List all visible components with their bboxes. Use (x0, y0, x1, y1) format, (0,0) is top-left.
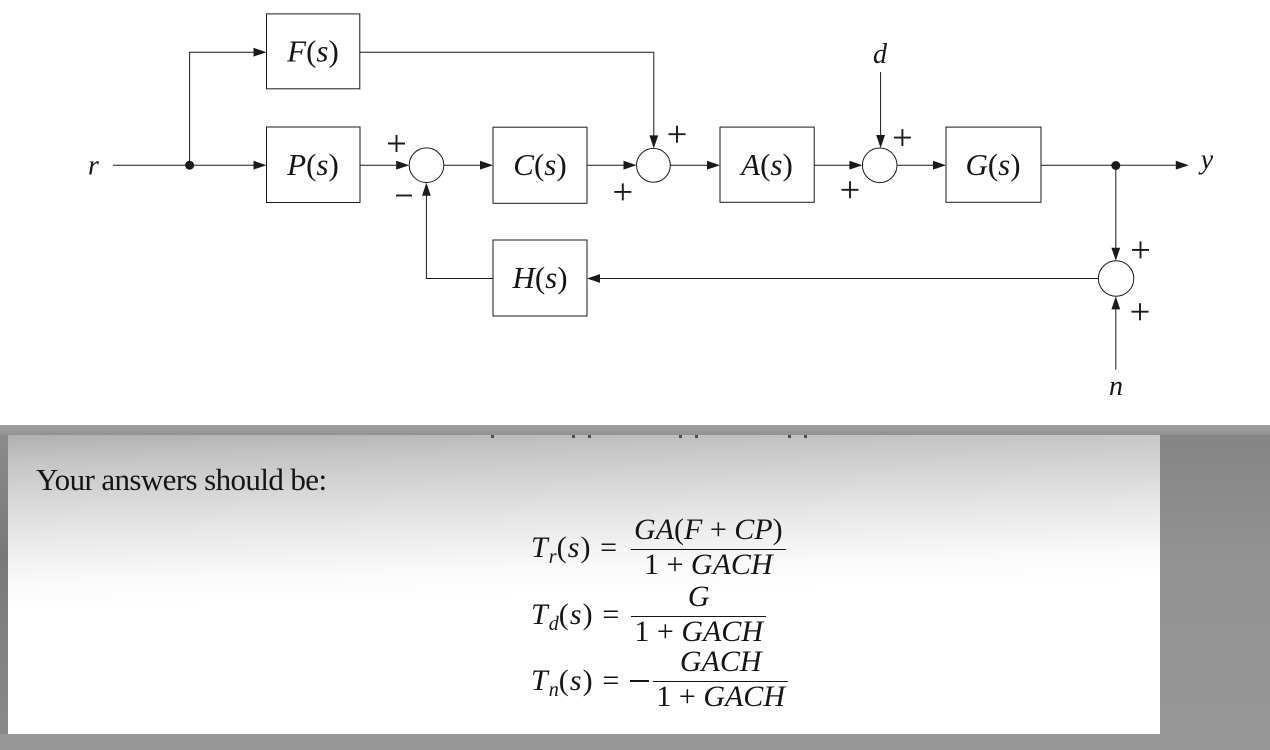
svg-text:F(s): F(s) (286, 34, 339, 69)
wire sum2 to A(s) (670, 164, 708, 166)
summing junction S2 (637, 148, 671, 182)
plus sign sum4 bottom-right (1132, 303, 1149, 320)
block diagram (0, 0, 1270, 424)
block A(s) (720, 127, 814, 202)
right gray block (1160, 435, 1270, 750)
arrowhead into sum1 left (396, 161, 409, 170)
arrowhead into sum2 top (649, 135, 658, 148)
answer panel left border (0, 435, 8, 734)
plus sign sum3 top-right (894, 129, 911, 146)
arrowhead into sum3 left (849, 161, 862, 170)
arrowhead into sum2 left (624, 161, 637, 170)
block G(s) (946, 127, 1041, 202)
arrowhead into F(s) (254, 48, 267, 57)
wire d input (880, 72, 882, 136)
plus sign sum2 bottom-left (614, 183, 631, 200)
equation T_n minus sign (630, 680, 649, 682)
svg-text:y: y (1198, 144, 1214, 175)
wire sum1 to C(s) (444, 164, 481, 166)
summing junction S1 (409, 148, 444, 183)
arrowhead into sum4 bottom (n) (1111, 296, 1120, 309)
plus sign sum3 bottom-left (842, 181, 859, 198)
wire A(s) to sum3 (814, 164, 850, 166)
wire sum3 to G(s) (897, 164, 934, 166)
wire H(s) output feedback to sum1 (426, 195, 493, 279)
block C(s) (493, 127, 587, 203)
wire junction up to F(s) (190, 52, 255, 165)
equation T_r fraction (631, 516, 786, 580)
wire P(s) output (360, 164, 397, 166)
node output junction dot (1111, 161, 1120, 170)
wire F(s) output feedforward (360, 52, 654, 136)
arrowhead into P(s) (254, 161, 267, 170)
plus sign sum2 top-right (669, 126, 686, 143)
svg-text:d: d (873, 39, 888, 70)
wire r input (113, 164, 255, 166)
plus sign sum4 top-right (1132, 241, 1149, 258)
svg-text:C(s): C(s) (513, 147, 566, 182)
wire G(s) output to y (1041, 164, 1177, 166)
arrowhead into H(s) right (587, 274, 600, 283)
svg-text:A(s): A(s) (739, 147, 793, 182)
equation T_n lhs (531, 664, 620, 698)
svg-text:H(s): H(s) (511, 260, 567, 295)
minus sign sum1 bottom-left (396, 195, 412, 197)
node input junction dot (185, 161, 194, 170)
arrowhead into A(s) (707, 161, 720, 170)
svg-text:P(s): P(s) (286, 147, 339, 182)
wire sum4 to H(s) (599, 278, 1098, 280)
arrowhead output y (1176, 161, 1189, 170)
block H(s) (493, 240, 587, 316)
arrowhead into G(s) (933, 161, 946, 170)
equation T_r lhs (531, 531, 618, 565)
equation T_d lhs (531, 598, 620, 632)
gray top strip of answer panel (0, 425, 1270, 435)
answer panel gradient content (8, 435, 1160, 734)
wire output down to sum4 (1115, 166, 1117, 249)
wire n input (1115, 308, 1117, 369)
arrowhead into sum1 bottom (feedback) (422, 183, 431, 196)
arrowhead into sum3 top (d) (876, 135, 885, 148)
answers title (36, 462, 326, 498)
block P(s) (267, 127, 361, 203)
arrowhead into sum4 top (1111, 248, 1120, 261)
summing junction S4 (1098, 261, 1133, 296)
svg-text:n: n (1109, 371, 1123, 402)
equation T_d fraction (631, 583, 766, 647)
wire C(s) to sum2 (587, 164, 625, 166)
arrowhead into C(s) (480, 161, 493, 170)
svg-text:G(s): G(s) (965, 147, 1020, 182)
equation T_n fraction (653, 648, 788, 712)
bottom gray band (0, 734, 1160, 750)
summing junction S3 (862, 148, 897, 183)
svg-text:r: r (88, 151, 99, 182)
plus sign sum1 top-left (388, 135, 405, 152)
block F(s) (267, 14, 360, 89)
cut-off equation glyph bottoms (491, 435, 494, 438)
